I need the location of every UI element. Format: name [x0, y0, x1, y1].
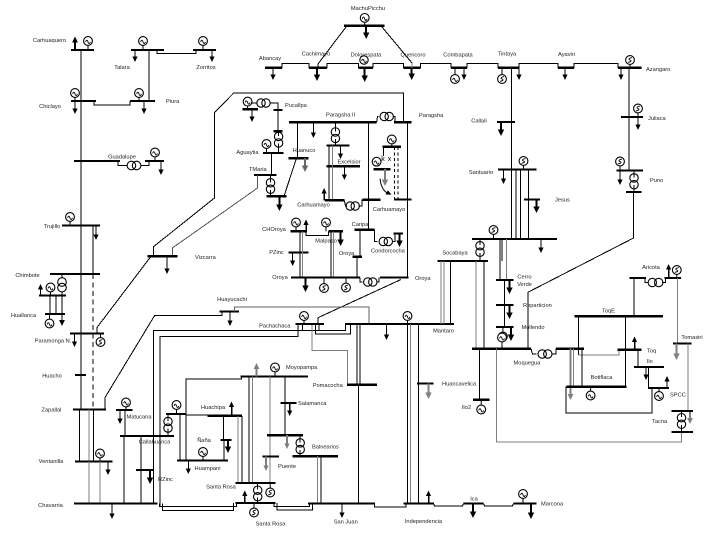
bus Ica	[464, 502, 484, 504]
bus MachuPicchu	[344, 25, 384, 27]
wires Mantaro-Independencia	[407, 324, 409, 504]
svg-text:Excelsior: Excelsior	[337, 160, 360, 166]
load arrow Piura	[143, 101, 145, 109]
svg-text:Tomasiri: Tomasiri	[681, 335, 702, 341]
wire Paramonga-Huacho	[80, 334, 82, 376]
svg-text:Huampani: Huampani	[195, 466, 221, 472]
svg-text:Ica: Ica	[470, 497, 478, 503]
svg-text:Ventanilla: Ventanilla	[39, 459, 65, 465]
wire Tomasiri-Tacna	[687, 344, 689, 412]
up arrow Moyopampa	[256, 369, 258, 377]
generator at Mantaro	[407, 320, 409, 324]
generator at Combapata	[454, 68, 456, 75]
bus Callahuanca	[120, 435, 174, 437]
svg-text:Chimbote: Chimbote	[15, 273, 39, 279]
generator at Huallanca	[49, 314, 51, 319]
generator Oroya 2	[345, 278, 347, 284]
bus Malpaso	[328, 230, 343, 232]
generator at Moquegua	[501, 342, 503, 349]
svg-text:Piura: Piura	[166, 99, 180, 105]
generator at Aricota	[676, 274, 678, 278]
generator at bus B	[176, 410, 178, 415]
svg-text:Ilo: Ilo	[647, 359, 653, 365]
wire Pucallpa down	[277, 110, 279, 131]
wires Huallanca upper-lower	[49, 296, 51, 315]
wire ParagshaII-Huanuco	[296, 122, 298, 158]
generator at Juliaca	[637, 113, 639, 117]
generator at Puno	[619, 166, 621, 171]
bus Guadalupe	[74, 160, 120, 162]
svg-text:ToqE: ToqE	[602, 309, 615, 315]
svg-text:Callali: Callali	[471, 119, 487, 125]
load arrow Mantaro	[386, 324, 388, 335]
bus Ventanilla	[75, 460, 113, 462]
wire Pomacocha-San Juan	[358, 385, 360, 504]
svg-text:Pachachaca: Pachachaca	[259, 324, 291, 330]
svg-text:Cerro: Cerro	[517, 275, 531, 281]
bus Tacna lower	[672, 431, 693, 433]
wire Trujillo-Chimbote B	[92, 226, 94, 275]
wire Tintaya-Callali-Socabaya	[511, 68, 513, 239]
svg-text:Oroya: Oroya	[272, 275, 288, 281]
wires CHOroya-PZinc-Oroya	[299, 231, 301, 252]
bus San Juan	[308, 502, 375, 504]
svg-text:Huacho: Huacho	[42, 374, 62, 380]
wire Botiflaca-SPCC loop	[566, 387, 652, 413]
wire Callahuanca-Chavarria	[123, 436, 125, 504]
svg-text:Marcona: Marcona	[541, 502, 564, 508]
load arrow Huampani	[187, 461, 189, 469]
bus Zorritos	[193, 49, 216, 51]
svg-text:Carhuaquero: Carhuaquero	[33, 38, 66, 44]
load arrow Azangaro	[620, 68, 622, 75]
wires Excelsior-Carhuamayo double	[328, 146, 330, 167]
top row interconnect wire	[282, 64, 309, 68]
wires Chavarria-SantaRosa link	[160, 503, 237, 506]
dashed wires Paragsha	[394, 147, 396, 200]
wires Socabaya-Moquegua	[475, 261, 477, 349]
svg-text:Pomacocha: Pomacocha	[313, 383, 344, 389]
generator at Tintaya	[501, 68, 503, 75]
wire Zapallal-Ventanilla A	[79, 410, 81, 462]
svg-text:Trujillo: Trujillo	[44, 224, 61, 230]
wire Huacho-Zapallal	[80, 375, 82, 410]
svg-text:Zorritos: Zorritos	[196, 65, 215, 71]
bus Cerro Verde	[496, 279, 514, 281]
transformer Santa Rosa	[254, 486, 262, 494]
load arrow Combapata	[463, 68, 465, 75]
bus Ilo	[634, 366, 664, 368]
load arrow Callali	[500, 122, 502, 130]
load arrow Huayucachi	[229, 312, 231, 321]
generator at Ilo2	[480, 400, 482, 405]
wires Balnearios-SanJuan	[317, 456, 319, 503]
bus Toq	[617, 349, 641, 351]
bus Carhuaquero	[71, 49, 94, 51]
svg-text:Toq: Toq	[647, 349, 656, 355]
wire Puno-Socabaya line	[528, 192, 633, 349]
svg-text:Callahuanca: Callahuanca	[139, 440, 171, 446]
bus Pomacocha	[347, 384, 377, 386]
generator at Talara	[142, 46, 144, 51]
transformer Pucallpa-Aguaytia	[274, 132, 282, 140]
wire Guadalupe-Trujillo	[80, 161, 82, 226]
svg-text:Paramonga N.: Paramonga N.	[35, 339, 72, 345]
bus Paragsha II	[289, 121, 377, 123]
svg-text:Huallanca: Huallanca	[11, 313, 37, 319]
bus Excelsior	[326, 165, 360, 167]
load arrow Excelsior upper	[340, 146, 342, 154]
wire Ventanilla-Chavarria	[88, 462, 90, 504]
wire Moquegua-Tacna L line	[496, 349, 681, 442]
bus Quencoro	[404, 67, 421, 69]
bus Dolorespata	[358, 67, 373, 69]
bus Ilo2	[473, 399, 490, 401]
wires Santuario-Socabaya triple	[515, 170, 517, 240]
transformer at Pucallpa	[251, 102, 257, 104]
wire Huanuco-TMaria lower	[284, 158, 297, 196]
svg-text:Salamanca: Salamanca	[298, 401, 327, 407]
up arrow Huallanca upper	[40, 290, 42, 296]
wire CHOroya-Malpaso	[306, 231, 328, 235]
svg-text:SPCC: SPCC	[670, 393, 686, 399]
bus Pucallpa	[273, 109, 282, 111]
wire Zapallal-Ventanilla B	[88, 410, 90, 462]
bus Salamanca	[280, 402, 296, 404]
bus Juliaca	[621, 116, 643, 118]
generator at Chiclayo	[74, 98, 76, 102]
transformer Callahuanca	[164, 417, 172, 425]
load arrow MachuPicchu	[365, 26, 367, 33]
wire MachuPicchu-Quencoro	[382, 27, 412, 63]
bus ToqE	[574, 315, 663, 317]
generator at Dolorespata	[360, 56, 368, 64]
svg-text:Santuario: Santuario	[469, 170, 493, 176]
bus Tacna upper	[672, 410, 693, 412]
bus Paramonga N	[70, 332, 104, 334]
svg-text:x: x	[388, 156, 392, 163]
wire Ica-Marcona	[484, 504, 514, 506]
wire Zapallal-Ventanilla C	[93, 410, 95, 462]
wire CerroVerde-Reparticion	[503, 280, 505, 305]
bus Aricota west	[629, 277, 646, 279]
svg-text:Puno: Puno	[650, 178, 663, 184]
bus Tintaya	[498, 67, 519, 69]
generator at Socabaya upper	[493, 235, 495, 240]
generator at Ventanilla	[99, 458, 101, 462]
wire Huayucachi-Mantaro	[234, 307, 369, 324]
bus Moyopampa	[241, 375, 309, 377]
svg-text:San Juan: San Juan	[334, 520, 358, 526]
svg-text:Ayaviri: Ayaviri	[558, 52, 575, 58]
transformer Socabaya	[476, 242, 484, 250]
transformer at Guadalupe	[118, 161, 127, 166]
generator at Paragsha KX	[391, 144, 393, 147]
svg-text:Condorcocha: Condorcocha	[371, 249, 406, 255]
bus X Balnearios upper	[267, 434, 303, 436]
generator at Trujillo	[69, 222, 71, 226]
svg-text:Talara: Talara	[114, 65, 130, 71]
up arrow Toq	[634, 342, 636, 350]
load arrow Salamanca	[289, 403, 291, 411]
load arrow Huancavelica	[428, 384, 430, 393]
wire Chiclayo-Piura	[94, 101, 130, 105]
wire busB-Huachipa	[186, 414, 208, 416]
transformer Balnearios	[296, 439, 304, 447]
load arrow Ica	[472, 504, 474, 512]
wire Independencia-Ica	[434, 504, 464, 506]
wire Huayucachi-Zapallal line C	[105, 312, 222, 410]
load arrow Chavarria	[111, 504, 113, 514]
load arrow Huanuco	[304, 158, 306, 165]
bus Moquegua west	[472, 348, 531, 350]
generator Santa Rosa lower	[253, 503, 255, 508]
svg-text:PZinc: PZinc	[269, 250, 284, 256]
wire ToqE-Toq	[625, 316, 627, 350]
svg-text:Paragsha: Paragsha	[419, 113, 444, 119]
up arrow Huachipa	[231, 407, 233, 416]
wire Moyopampa-Puente-SantaRosa	[269, 377, 271, 484]
wire Moquegua-Ilo2	[479, 349, 481, 400]
wire ToqE-Moquegua-Toq	[578, 316, 580, 355]
svg-text:Botiflaca: Botiflaca	[591, 375, 614, 381]
svg-text:Aguaytia: Aguaytia	[236, 150, 259, 156]
wires Malpaso-Oroya	[330, 231, 332, 277]
wire Salamanca-busX	[284, 403, 286, 435]
up arrow Carhuamayo west	[323, 194, 325, 201]
bus TMaria	[254, 174, 277, 176]
svg-text:Reparticion: Reparticion	[523, 303, 552, 309]
load arrow RZinc	[149, 470, 151, 478]
bus Paragsha short top	[394, 121, 412, 123]
load arrow Ilo	[645, 367, 647, 375]
transformer Tacna	[677, 414, 685, 422]
bus Vizcarra	[147, 255, 177, 257]
svg-text:Ilo2: Ilo2	[462, 405, 471, 411]
generator at Guadalupe	[154, 157, 156, 161]
load arrow Huallanca long	[61, 296, 63, 321]
load arrow Marcona	[530, 504, 532, 513]
bus CHOroya	[291, 230, 308, 232]
generator at Carhuaquero	[87, 46, 89, 51]
bus TMaria lower	[266, 195, 286, 197]
wire Chimbote-Paramonga	[80, 274, 82, 334]
wire Talara-Piura	[148, 50, 150, 101]
bus Guadalupe gen side	[145, 160, 164, 162]
bus Puente	[262, 455, 279, 457]
wire Huachipa-Nana	[223, 416, 225, 440]
generator at Matucana	[125, 407, 127, 410]
bus Santa Rosa upper	[236, 482, 276, 484]
wire Pachachaca-Pomacocha gray	[312, 324, 348, 385]
bus Huacho	[75, 374, 86, 376]
up arrow Carhuaquero	[74, 43, 76, 51]
load arrow Malpaso	[340, 231, 342, 239]
load arrow San Juan	[341, 504, 343, 513]
wire Toq-Botiflaca	[625, 350, 627, 387]
wire ParagshaII-Carhuamayo east	[368, 122, 370, 199]
bus Mollendo	[496, 326, 514, 328]
wire RZinc-Chavarria	[140, 470, 142, 504]
svg-text:Caripa: Caripa	[352, 222, 370, 228]
wire Moyopampa-Salamanca	[284, 377, 286, 404]
generator 2 at Paragsha KX	[372, 157, 381, 166]
load arrow Reparticion	[509, 305, 511, 313]
svg-text:Vizcarra: Vizcarra	[195, 255, 217, 261]
generator at Piura	[138, 98, 140, 102]
bus Marcona	[514, 502, 537, 504]
bus Chiclayo	[71, 100, 96, 102]
transformer at Puno	[630, 174, 638, 182]
bus RZinc	[136, 469, 154, 471]
generator at Zorritos	[202, 46, 204, 51]
bus Pucallpa gen	[243, 108, 259, 110]
bus Jesus	[524, 198, 540, 200]
load arrow Tomasiri	[676, 344, 678, 354]
load arrow Vizcarra	[166, 256, 168, 268]
bus Santa Rosa lower	[236, 502, 276, 504]
transformer Aricota	[645, 278, 648, 283]
bus B near Matucana	[166, 413, 186, 415]
bus Huampani	[177, 459, 228, 461]
wire Oroya small down	[356, 257, 358, 278]
svg-text:Cachimayo: Cachimayo	[302, 52, 330, 58]
load arrow busX	[286, 435, 288, 443]
generator at CHOroya	[295, 227, 297, 231]
load arrow Paramonga	[74, 334, 76, 342]
svg-text:k: k	[381, 156, 385, 163]
wire TMaria-Vizcarra	[172, 175, 257, 256]
load arrow Excelsior	[343, 166, 345, 174]
transformer at Chimbote	[58, 278, 67, 287]
load arrow Matucana	[119, 410, 121, 419]
svg-text:Zapallal: Zapallal	[42, 408, 62, 414]
bus PZinc	[288, 251, 308, 253]
svg-text:Balnearios: Balnearios	[312, 445, 339, 451]
wire Juliaca-Puno	[628, 117, 630, 171]
bus Chimbote	[50, 273, 100, 275]
svg-text:Guadalupe: Guadalupe	[108, 155, 136, 161]
wire busB-Huampani	[179, 414, 181, 461]
bus Ayaviri	[558, 67, 574, 69]
load arrow Tintaya	[518, 68, 520, 75]
generator at Azangaro	[629, 65, 631, 68]
svg-text:Puente: Puente	[278, 464, 296, 470]
svg-text:Chiclayo: Chiclayo	[39, 104, 61, 110]
load arrow Zorritos	[211, 50, 213, 57]
load arrow Pucallpa gen	[251, 109, 253, 116]
svg-text:Mantaro: Mantaro	[433, 329, 454, 335]
up arrow Santa Rosa	[244, 496, 246, 503]
bus Paragsha KX lower	[373, 168, 390, 170]
svg-text:RZinc: RZinc	[158, 477, 173, 483]
bus Huallanca	[45, 313, 65, 315]
wire SanJuan-Independencia U link	[375, 504, 407, 508]
bus Aguaytia	[263, 152, 283, 154]
wire Ilo-SPCC	[648, 367, 650, 388]
svg-text:Tacna: Tacna	[652, 419, 668, 425]
svg-text:Juliaca: Juliaca	[648, 116, 667, 122]
wire Nana-Huampani	[223, 440, 225, 461]
wire MachuPicchu-Cachimayo	[318, 27, 346, 68]
bus Piura	[130, 100, 155, 102]
wire Pachachaca-Mantaro link B	[316, 324, 351, 334]
load arrow Ventanilla	[107, 462, 109, 470]
svg-text:Aricota: Aricota	[642, 265, 661, 271]
bus Socabaya upper	[472, 238, 557, 240]
load arrow Cachimayo	[316, 68, 318, 75]
bus Nana	[221, 439, 232, 441]
bus Chavarria	[74, 502, 158, 504]
load arrow Abancay	[272, 68, 274, 75]
bus Tomasiri	[673, 342, 692, 344]
bus Talara	[131, 49, 164, 51]
svg-text:CHOroya: CHOroya	[262, 227, 287, 233]
svg-text:Combapata: Combapata	[443, 53, 473, 59]
transformer Moquegua	[531, 349, 537, 354]
svg-text:Carhuamayo: Carhuamayo	[373, 207, 406, 213]
bus Callali	[497, 121, 515, 123]
bus Matucana	[116, 409, 133, 411]
generator at Pucallpa	[247, 106, 249, 109]
generator Oroya 1	[323, 278, 325, 284]
load arrow Paragsha KX	[384, 169, 386, 179]
wire Vizcarra-Paramonga	[97, 256, 151, 333]
bus Reparticion	[496, 304, 514, 306]
wire Callahuanca-RZinc	[140, 436, 142, 470]
wire Aricota-Tomasiri	[677, 278, 679, 344]
bus Socabaya	[438, 260, 489, 262]
svg-text:Huanuco: Huanuco	[293, 148, 316, 154]
bus Condorcocha	[394, 232, 403, 234]
generator at Botiflaca	[590, 387, 592, 391]
up arrow Aricota	[668, 270, 670, 279]
transformer Oroya	[360, 278, 363, 283]
bus SPCC	[648, 387, 669, 389]
wire Trujillo-Chimbote A	[80, 226, 82, 275]
wires Socabaya-CerroVerde	[499, 239, 501, 280]
bus Carhuamayo west	[325, 199, 344, 201]
svg-text:Tintaya: Tintaya	[498, 52, 517, 58]
wire Chiclayo-Guadalupe	[80, 101, 82, 161]
bus Pucallpa lower	[273, 130, 282, 132]
wire Mantaro-Huancavelica-Independencia	[418, 324, 420, 504]
svg-text:Jesus: Jesus	[555, 198, 570, 204]
svg-text:Carhuamayo: Carhuamayo	[297, 203, 330, 209]
bus Balnearios	[293, 455, 338, 457]
generator at SPCC	[658, 388, 660, 392]
wire rail outer taps	[318, 324, 320, 331]
up arrow Independencia	[428, 496, 430, 504]
load arrow Ayaviri	[564, 68, 566, 75]
bus Paragsha KX gen	[383, 146, 401, 148]
bus Moquegua east	[556, 348, 584, 350]
svg-text:Huancavelica: Huancavelica	[442, 382, 477, 388]
wires Huachipa-SantaRosa	[237, 416, 239, 483]
load arrow Trujillo	[95, 226, 97, 235]
transformer TMaria	[266, 179, 274, 187]
svg-text:Ñaña: Ñaña	[197, 437, 211, 444]
load arrow Puno	[619, 171, 621, 180]
wires Moquegua-Botiflaca	[573, 349, 575, 387]
load arrow Socabaya upper	[540, 239, 542, 248]
wire Carhuaquero-Chiclayo	[80, 50, 82, 101]
load arrow Dolorespata	[364, 68, 366, 76]
bus Oroya small	[353, 256, 363, 258]
bus Oroya east	[380, 276, 409, 278]
up arrow CHOroya	[305, 225, 307, 231]
svg-text:Socabaya: Socabaya	[442, 251, 468, 257]
